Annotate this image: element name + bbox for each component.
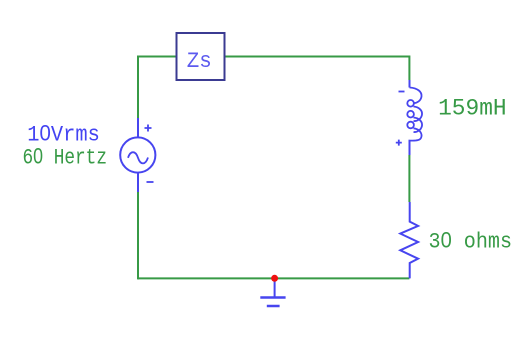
wire top-right segment — [226, 56, 410, 58]
AC source V1 bottom lead — [137, 172, 139, 192]
AC source minus sign — [147, 181, 154, 183]
ground long bar — [260, 296, 285, 299]
inductor L1 bottom lead — [409, 141, 411, 156]
junction dot (red) — [271, 275, 278, 282]
svg-text:159mH: 159mH — [438, 96, 507, 123]
svg-text:30 ohms: 30 ohms — [429, 227, 513, 254]
wire bottom — [138, 277, 409, 279]
svg-text:Zs: Zs — [187, 48, 212, 74]
resistor R1 top lead and zigzag — [400, 202, 418, 278]
wire left lower — [137, 192, 139, 279]
AC source V1 circle — [120, 137, 155, 172]
inductor plus sign — [396, 140, 402, 146]
wire top-left segment — [138, 56, 176, 58]
wire right upper — [408, 56, 410, 81]
wire left upper — [137, 56, 139, 119]
AC source plus sign — [145, 125, 152, 132]
impedance box Zs — [177, 33, 225, 80]
inductor L1 top lead — [409, 80, 411, 88]
AC source V1 top lead — [137, 118, 139, 138]
wire right middle — [408, 155, 410, 202]
inductor minus sign — [399, 91, 405, 93]
ground stub — [274, 278, 276, 297]
ground short bar — [267, 305, 280, 308]
AC source V1 sine — [128, 152, 148, 163]
inductor L1 coil — [407, 88, 422, 141]
svg-text:60 Hertz: 60 Hertz — [23, 143, 108, 170]
